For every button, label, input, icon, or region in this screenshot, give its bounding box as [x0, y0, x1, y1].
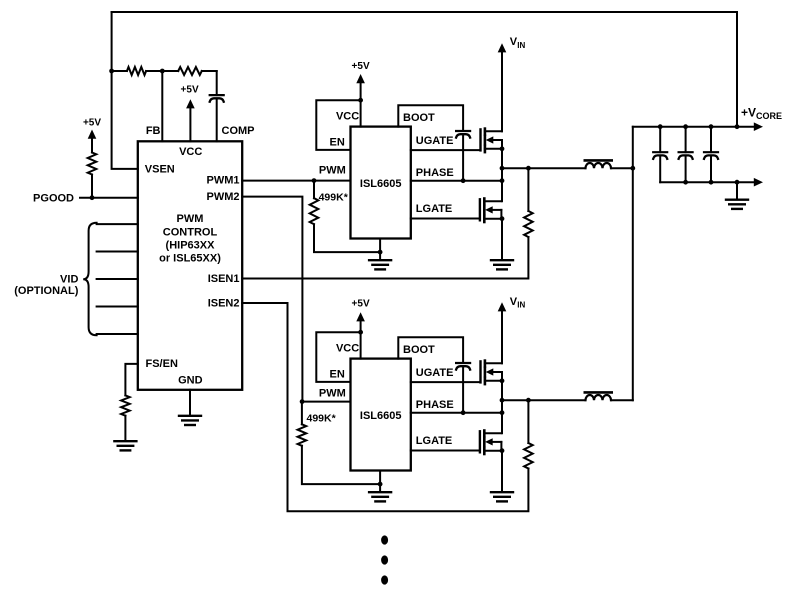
svg-text:499K*: 499K* [319, 192, 349, 204]
wire UGATE [ch2] [411, 381, 481, 383]
resistor R2 (compensation) [178, 67, 217, 75]
inductor L1 [ch1] [585, 160, 612, 168]
label VID (OPTIONAL) [14, 274, 78, 297]
power VIN [ch2] [510, 296, 526, 310]
resistor R1 (feedback) [127, 67, 162, 75]
wire PWM1 to driver 1 [242, 180, 350, 182]
wire: to R2 [162, 70, 178, 72]
inductor L2 [ch2] [585, 392, 612, 400]
svg-text:ISL6605: ISL6605 [360, 178, 402, 190]
wire: lower source to ground [ch2] [501, 451, 503, 491]
label VCC (U1 pin) [179, 146, 202, 158]
brace: VID bracket [83, 223, 96, 335]
power VIN [ch1] [510, 36, 526, 50]
label PGOOD [33, 193, 74, 205]
wire ISEN1 [242, 237, 528, 279]
svg-text:PWM: PWM [319, 388, 346, 400]
resistor R3 (PGOOD pullup) [88, 153, 97, 198]
power +5V (driver VCC) [ch1] [352, 61, 370, 103]
capacitor C1 (compensation) [210, 71, 224, 141]
label PWM2 (U1 pin) [207, 191, 240, 203]
wire: driver GND [ch2] [378, 471, 383, 492]
svg-text:+5V: +5V [181, 84, 199, 95]
transistor Q1 (upper MOSFET) [ch1] [481, 129, 503, 153]
wire: driver GND [ch1] [378, 239, 383, 260]
label LGATE [ch2] [416, 435, 452, 447]
svg-text:+5V: +5V [352, 299, 370, 310]
svg-text:(OPTIONAL): (OPTIONAL) [14, 285, 78, 297]
svg-text:ISEN1: ISEN1 [208, 273, 240, 285]
svg-text:+5V: +5V [352, 61, 370, 72]
wire: phase node [ch1] [500, 149, 505, 201]
label BOOT [ch1] [403, 112, 435, 124]
svg-text:UGATE: UGATE [416, 135, 454, 147]
wire PHASE [ch2] [411, 410, 505, 415]
svg-text:CORE: CORE [756, 111, 782, 121]
wire VIN [ch1] [498, 43, 507, 131]
label VSEN (U1 pin) [145, 164, 175, 176]
label EN (driver pin) [ch2] [330, 368, 345, 380]
transistor Q2 (lower MOSFET) [ch1] [480, 199, 502, 223]
node: PWM1/499K junction [312, 178, 317, 183]
label ISEN1 (U1 pin) [208, 273, 240, 285]
wire: inductor to output bus [ch1] [611, 167, 633, 169]
wire: VSEN to feedback node [112, 71, 138, 169]
value label 499K* for R7 [ch2] [307, 413, 337, 425]
wire: output return rail [660, 178, 763, 187]
svg-text:BOOT: BOOT [403, 344, 435, 356]
label PWM (driver pin) [ch2] [319, 388, 346, 400]
wire: phase node [ch2] [500, 381, 505, 433]
label ISEN2 (U1 pin) [208, 297, 240, 309]
wire: U1 GND [189, 390, 191, 415]
label UGATE [ch1] [416, 135, 454, 147]
ground (driver GND) [ch1] [369, 260, 391, 269]
svg-text:FB: FB [146, 125, 161, 137]
IC U2: ISL6605 driver box [ch1] [351, 127, 411, 239]
svg-text:PWM2: PWM2 [207, 191, 240, 203]
label GND (U1 pin) [178, 374, 203, 386]
resistor R6 (current sense) [ch1] [524, 166, 533, 237]
svg-text:ISEN2: ISEN2 [208, 297, 240, 309]
resistor R4 (FS/EN) [121, 395, 130, 440]
label ISL6605 (U2) [ch1] [360, 178, 402, 190]
svg-text:VSEN: VSEN [145, 164, 175, 176]
label VCC (driver pin) [ch1] [336, 111, 359, 123]
svg-text:COMP: COMP [222, 125, 255, 137]
node: upper source [ch1] [500, 146, 505, 151]
resistor R7 499K* [ch2] [298, 402, 381, 485]
wire LGATE [ch2] [411, 450, 480, 452]
wire: phase to inductor [ch2] [502, 399, 586, 401]
svg-text:IN: IN [517, 41, 525, 50]
wire PHASE [ch1] [411, 178, 505, 183]
svg-text:PWM: PWM [319, 165, 346, 177]
capacitor C2 (bootstrap) [ch1] [456, 131, 470, 183]
transistor Q4 (lower MOSFET) [ch2] [480, 431, 502, 455]
svg-text:499K*: 499K* [307, 413, 337, 425]
node: lower source [ch2] [500, 448, 505, 453]
svg-text:EN: EN [330, 368, 345, 380]
svg-text:VCC: VCC [336, 343, 359, 355]
wire PWM2 to driver 2 [242, 197, 350, 402]
resistor R5 499K* [ch1] [310, 181, 380, 253]
wire: inductor to output bus [ch2] [611, 399, 633, 401]
svg-text:VCC: VCC [336, 111, 359, 123]
svg-text:GND: GND [178, 374, 203, 386]
label UGATE [ch2] [416, 367, 454, 379]
svg-text:+5V: +5V [83, 117, 101, 128]
svg-text:BOOT: BOOT [403, 112, 435, 124]
label PWM (driver pin) [ch1] [319, 165, 346, 177]
wire UGATE [ch1] [411, 149, 481, 151]
wire: return to ground [736, 182, 738, 198]
label U1 title [159, 213, 221, 265]
svg-text:EN: EN [330, 136, 345, 148]
node: ch1 inductor to bus [630, 166, 635, 171]
svg-text:ISL6605: ISL6605 [360, 410, 402, 422]
svg-text:PGOOD: PGOOD [33, 193, 74, 205]
svg-text:+V: +V [741, 106, 756, 120]
svg-text:VID: VID [60, 274, 78, 286]
svg-text:PWM: PWM [177, 213, 204, 225]
power +5V (driver VCC) [ch2] [352, 299, 370, 335]
capacitor C3 (bootstrap) [ch2] [456, 363, 470, 415]
ground (U1 GND) [179, 416, 201, 425]
label EN (driver pin) [ch1] [330, 136, 345, 148]
capacitor C4 (output) [653, 127, 667, 183]
wire ISEN2 [242, 303, 528, 511]
ground (power stage) [ch2] [491, 492, 513, 501]
svg-text:LGATE: LGATE [416, 435, 452, 447]
wire: FS/EN [125, 364, 137, 396]
svg-text:UGATE: UGATE [416, 367, 454, 379]
label VCC (driver pin) [ch2] [336, 343, 359, 355]
node: upper source [ch2] [500, 378, 505, 383]
IC U3: ISL6605 driver box [ch2] [351, 359, 411, 471]
wire: VCC/EN tie loop [ch2] [316, 332, 360, 382]
label +VCORE [741, 106, 782, 121]
ground (output return) [726, 200, 748, 209]
label PHASE [ch2] [416, 399, 454, 411]
wire: feedback from +VCORE bus to FB network (top) [112, 12, 737, 127]
power +5V (PGOOD pullup) [83, 117, 101, 152]
ground (FS/EN resistor) [114, 441, 136, 450]
wire: FB pin [161, 71, 163, 141]
svg-text:FS/EN: FS/EN [146, 358, 178, 370]
wire: output bus [632, 127, 634, 401]
label FS/EN (U1 pin) [146, 358, 178, 370]
svg-text:or ISL65XX): or ISL65XX) [159, 253, 221, 265]
wire VIN [ch2] [498, 302, 507, 363]
wire: VID input lines (5) [97, 224, 138, 334]
svg-text:PHASE: PHASE [416, 399, 454, 411]
node: continuation dots [381, 535, 388, 584]
wire PGOOD [80, 195, 138, 200]
capacitor C5 (output) [679, 127, 693, 183]
wire LGATE [ch1] [411, 218, 480, 220]
value label 499K* for R5 [ch1] [319, 192, 349, 204]
node: PWM2/499K junction [300, 399, 305, 404]
transistor Q3 (upper MOSFET) [ch2] [481, 361, 503, 385]
IC U1: PWM CONTROL (HIP63XX or ISL65XX) box [138, 141, 242, 389]
node: lower source [ch1] [500, 216, 505, 221]
label COMP [222, 125, 255, 137]
label FB [146, 125, 161, 137]
svg-text:LGATE: LGATE [416, 203, 452, 215]
capacitor C6 (output) [704, 127, 718, 183]
label BOOT [ch2] [403, 344, 435, 356]
resistor R8 (current sense) [ch2] [524, 398, 533, 469]
wire: BOOT loop [ch2] [398, 337, 463, 363]
label ISL6605 (U3) [ch2] [360, 410, 402, 422]
node: FB network left junction [109, 69, 127, 74]
node: FB junction [160, 69, 165, 74]
label PHASE [ch1] [416, 167, 454, 179]
svg-text:CONTROL: CONTROL [163, 227, 218, 239]
label LGATE [ch1] [416, 203, 452, 215]
wire: phase to inductor [ch1] [502, 167, 586, 169]
ground (driver GND) [ch2] [369, 492, 391, 501]
label PWM1 (U1 pin) [207, 174, 240, 186]
svg-text:IN: IN [517, 301, 525, 310]
svg-text:PHASE: PHASE [416, 167, 454, 179]
svg-text:VCC: VCC [179, 146, 202, 158]
wire: lower source to ground [ch1] [501, 219, 503, 259]
power +5V (VCC of PWM controller) [181, 84, 199, 141]
svg-text:PWM1: PWM1 [207, 174, 240, 186]
wire: BOOT loop [ch1] [398, 105, 463, 131]
ground (power stage) [ch1] [491, 260, 513, 269]
wire: VCC/EN tie loop [ch1] [316, 100, 360, 150]
svg-text:(HIP63XX: (HIP63XX [166, 240, 216, 252]
wire +VCORE rail [633, 122, 763, 131]
